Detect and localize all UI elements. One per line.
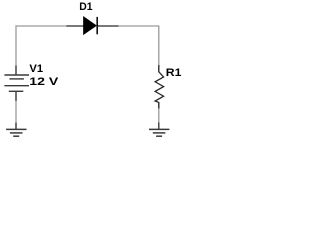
svg-text:V1: V1 xyxy=(29,63,43,75)
diode D1 cathode lead xyxy=(98,25,119,27)
right ground lead stub xyxy=(158,123,160,130)
wire from diode D1 cathode right and down to resistor R1 xyxy=(98,26,159,72)
left ground middle bar xyxy=(10,132,23,134)
battery V1 short plate (upper) xyxy=(9,78,24,80)
diode D1 anode lead xyxy=(66,25,83,27)
battery V1 plus plate (top long) xyxy=(4,74,29,76)
svg-text:12 V: 12 V xyxy=(29,76,59,88)
right ground bottom bar xyxy=(156,135,162,137)
battery V1 minus plate (bottom short) xyxy=(9,90,23,92)
diode D1 cathode bar xyxy=(96,17,98,34)
wire from battery V1 minus down to left ground xyxy=(15,92,17,130)
battery V1 top lead xyxy=(15,66,17,76)
svg-text:R1: R1 xyxy=(166,67,182,79)
resistor R1 zigzag xyxy=(155,65,164,109)
svg-text:D1: D1 xyxy=(79,1,92,13)
left ground bottom bar xyxy=(13,135,19,137)
right ground top bar xyxy=(149,128,169,130)
wire top-left corner from battery V1 up and right to diode D1 anode xyxy=(16,26,84,75)
wire from resistor R1 bottom down to right ground xyxy=(158,102,160,129)
left ground top bar xyxy=(6,128,26,130)
left ground lead stub xyxy=(15,123,17,130)
diode D1 triangle xyxy=(84,17,97,34)
battery V1 long plate (lower) xyxy=(4,85,29,87)
battery V1 bottom lead xyxy=(15,91,17,101)
right ground middle bar xyxy=(153,132,166,134)
